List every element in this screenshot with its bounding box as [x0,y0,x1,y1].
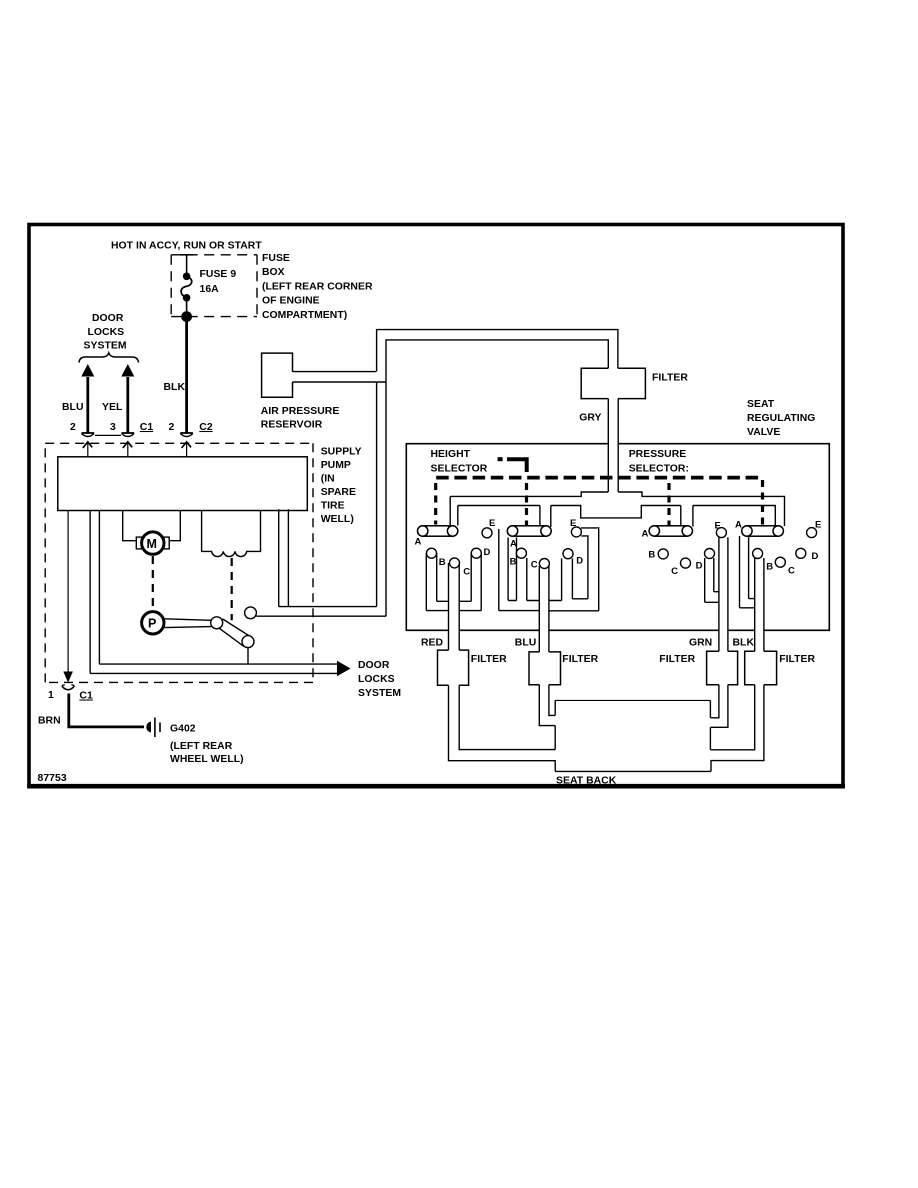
connector hat and entry arrow (YEL wire pin 3) [122,433,135,457]
valve 2 port pipes [499,528,599,652]
label FILTER (blk line) [779,654,815,665]
fuse box dashed outline [171,255,257,317]
motor branch wires [123,511,181,541]
svg-text:AIR PRESSURE: AIR PRESSURE [261,406,340,417]
pipe GRY filter down to manifold [608,399,618,492]
linkage drop to valve 2 [525,483,528,526]
label BLK [164,382,186,393]
label FUSE 9 / 16A [200,269,237,295]
svg-text:SPARE: SPARE [321,487,356,498]
label AIR PRESSURE RESERVOIR [261,406,340,431]
svg-text:SELECTOR: SELECTOR [431,463,488,474]
svg-text:D: D [484,547,491,558]
svg-text:C2: C2 [199,422,213,433]
valve 2 port labels [510,518,584,571]
linkage drop to valve 4 [761,480,764,527]
linkage drop to valve 3 [667,483,670,526]
svg-text:P: P [148,617,156,631]
svg-text:RESERVOIR: RESERVOIR [261,420,323,431]
svg-text:PRESSURE: PRESSURE [629,449,687,460]
svg-text:SEAT BACK: SEAT BACK [556,776,617,787]
svg-text:D: D [696,561,703,572]
svg-text:(LEFT REAR CORNER: (LEFT REAR CORNER [262,281,373,292]
svg-text:C: C [531,560,538,571]
svg-text:C: C [671,566,678,577]
svg-text:BLU: BLU [62,402,84,413]
seat back bladder box [555,700,711,771]
supply pump dashed enclosure [45,443,313,682]
label PRESSURE SELECTOR [629,449,689,474]
pin 2 (BLU) [70,422,76,433]
label RED [421,638,444,649]
svg-text:D: D [812,551,819,562]
svg-text:HOT IN ACCY, RUN OR START: HOT IN ACCY, RUN OR START [111,241,262,252]
svg-text:SYSTEM: SYSTEM [84,341,127,352]
filter BLU line [529,652,561,685]
svg-text:GRY: GRY [579,413,601,424]
svg-text:A: A [510,538,517,549]
svg-text:VALVE: VALVE [747,427,780,438]
svg-text:FILTER: FILTER [562,654,598,665]
valve 3 port labels [642,521,721,578]
connector C1 label (bottom) [79,691,93,702]
svg-text:SEAT: SEAT [747,399,775,410]
valve 1 port labels [415,518,496,578]
valve 4 spool [742,526,784,536]
valve 3 port circles [658,528,726,569]
svg-text:2: 2 [169,422,175,433]
filter GRN line [707,651,738,685]
mechanical linkage shaft (thick dashed) [436,476,762,480]
air pipe pump outlet run to riser [256,509,386,616]
pin 2 (BLK) [169,422,175,433]
valve 4 port labels [735,520,821,577]
svg-text:3: 3 [110,422,116,433]
svg-text:WELL): WELL) [321,514,354,525]
label DOOR LOCKS SYSTEM (top) [84,313,127,352]
svg-text:A: A [642,529,649,540]
label FILTER (top) [652,373,688,384]
supply manifold gallery upper wall [450,492,784,526]
switch lever link from P [165,617,223,629]
svg-text:BLU: BLU [515,638,537,649]
svg-text:C: C [788,566,795,577]
label GRY [579,413,601,424]
svg-text:BRN: BRN [38,716,61,727]
drawing number 87753 [38,773,67,784]
svg-text:C1: C1 [79,691,93,702]
svg-text:TIRE: TIRE [321,501,345,512]
arrow to door locks system [337,661,351,677]
svg-text:D: D [576,556,583,567]
label FILTER (grn line) [659,654,695,665]
svg-text:COMPARTMENT): COMPARTMENT) [262,310,347,321]
label BRN [38,716,61,727]
svg-text:LOCKS: LOCKS [88,327,125,338]
wire from HOT feed into fuse (T-bar top) [180,255,194,273]
label DOOR LOCKS SYSTEM (right) [358,660,401,699]
junction dot on fuse box edge [181,311,192,322]
pipe BLU to seat back [539,685,555,726]
svg-text:SUPPLY: SUPPLY [321,447,362,458]
wires to door locks output [90,511,99,674]
wires door locks output run [90,664,338,673]
connector C1 label (top) [140,422,154,433]
air pipe riser and top loop to filter [377,330,618,617]
valve 4 port pipes [740,536,764,651]
svg-text:B: B [510,557,517,568]
svg-text:PUMP: PUMP [321,460,351,471]
wire YEL with up arrow to door locks [121,364,134,433]
dashed link motor to pressure switch [152,556,154,610]
manifold tap down to valve 3 [681,506,693,527]
svg-text:A: A [415,537,422,548]
svg-text:B: B [766,562,773,573]
svg-text:(IN: (IN [321,474,335,485]
svg-text:C1: C1 [140,422,154,433]
connector hat and entry arrow (BLU wire pin 2) [82,433,95,457]
height selector knob pointer (dash-dot) [498,457,527,472]
label BLU (pipe) [515,638,537,649]
label SEAT REGULATING VALVE [747,399,815,438]
label SEAT BACK [556,776,617,787]
valve 1 port pipes (height selector left) [426,553,481,650]
curly brace over door lock wires [79,353,139,363]
label BLK (pipe) [733,638,755,649]
label YEL [102,402,123,413]
manifold tap down to valve 2 [540,506,551,528]
pin 1 label [48,690,54,701]
pipe RED to seat back [449,685,556,771]
relay coil winding [202,511,261,557]
svg-text:E: E [489,518,495,529]
svg-text:LOCKS: LOCKS [358,674,395,685]
svg-text:2: 2 [70,422,76,433]
dashed link coil to switch arm [231,558,233,620]
svg-text:RED: RED [421,638,444,649]
connector hat and entry arrow (BLK wire pin 2) [180,433,193,457]
svg-text:(LEFT REAR: (LEFT REAR [170,741,233,752]
fuse 9 symbol (S squiggle with end dots) [181,273,192,302]
svg-text:E: E [815,520,821,531]
pressure switch P [142,612,164,634]
pump internal bus rectangle [58,457,307,511]
svg-text:SYSTEM: SYSTEM [358,688,401,699]
label G402 (LEFT REAR WHEEL WELL) [170,724,244,766]
svg-text:16A: 16A [200,284,220,295]
svg-text:BLK: BLK [164,382,186,393]
svg-text:BOX: BOX [262,267,285,278]
motor M [136,532,169,554]
connector C2 label [199,422,213,433]
label SUPPLY PUMP (IN SPARE TIRE WELL) [321,447,362,526]
svg-text:B: B [648,550,655,561]
reservoir tube to riser [293,372,386,382]
label HOT IN ACCY, RUN OR START [111,241,262,252]
svg-text:DOOR: DOOR [92,313,124,324]
ground G402 symbol [146,718,160,738]
svg-text:FUSE: FUSE [262,253,290,264]
svg-text:M: M [147,537,157,551]
wire BLU with up arrow to door locks [81,364,94,433]
label GRN [689,638,712,649]
linkage drop to valve 1 [434,483,437,525]
wire fuse to junction dot [186,298,188,316]
svg-text:A: A [735,520,742,531]
seat regulating valve enclosure [406,444,829,631]
manifold tap down to valve 1 [450,496,458,525]
svg-text:E: E [570,518,576,529]
valve 1 spool [418,526,458,536]
svg-text:WHEEL WELL): WHEEL WELL) [170,754,244,765]
svg-text:HEIGHT: HEIGHT [431,449,471,460]
valve 1 port circles [427,528,493,568]
svg-text:87753: 87753 [38,773,67,784]
svg-text:1: 1 [48,690,54,701]
valve 3 spool [649,526,692,537]
svg-text:FILTER: FILTER [471,654,507,665]
svg-text:B: B [439,557,446,568]
valve 4 port circles [753,528,817,568]
svg-text:G402: G402 [170,724,196,735]
pipe BLK to seat back [710,685,764,772]
label FUSE BOX (LEFT REAR CORNER OF ENGINE COMPARTMENT) [262,253,373,321]
filter BLK line [745,651,777,685]
switch arm to contact [220,619,255,664]
svg-text:SELECTOR:: SELECTOR: [629,463,689,474]
svg-text:FILTER: FILTER [779,654,815,665]
svg-text:FILTER: FILTER [659,654,695,665]
filter RED line [438,650,469,685]
supply manifold gallery lower wall [458,506,776,529]
valve 2 spool [507,526,551,536]
label HEIGHT SELECTOR [431,449,488,474]
wire BRN to ground [69,694,144,727]
svg-text:YEL: YEL [102,402,123,413]
valve 3 port pipes [705,537,728,651]
svg-text:BLK: BLK [733,638,755,649]
wire BLK from fuse box down to pump connector C2 [185,317,188,433]
pin 3 (YEL) [110,422,116,433]
schematic outer frame [27,225,845,787]
svg-text:GRN: GRN [689,638,712,649]
svg-text:FUSE 9: FUSE 9 [200,269,237,280]
svg-text:FILTER: FILTER [652,373,688,384]
label FILTER (blu line) [562,654,598,665]
svg-text:DOOR: DOOR [358,660,390,671]
valve 2 port circles [516,527,581,569]
pump outlet port cap [245,607,257,619]
svg-text:E: E [715,521,721,532]
pipe GRN to seat back [710,685,728,728]
svg-text:OF ENGINE: OF ENGINE [262,296,320,307]
connector C1 bottom (pin 1) [62,685,75,690]
svg-text:C: C [463,566,470,577]
wire to ground pin (left) [63,511,73,683]
air filter (main supply) [581,368,645,398]
svg-text:REGULATING: REGULATING [747,413,815,424]
connector strip between C1 pins [95,434,121,436]
air pressure reservoir tank [262,353,293,397]
label FILTER (red line) [471,654,507,665]
label BLU [62,402,84,413]
